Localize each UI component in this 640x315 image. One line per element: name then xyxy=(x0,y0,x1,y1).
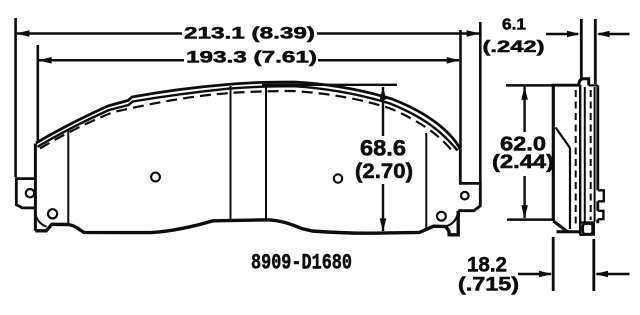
side view bottom flange outline xyxy=(580,223,594,235)
svg-text:(2.44): (2.44) xyxy=(492,152,554,173)
side view plate top hook xyxy=(579,79,589,86)
front view bottom edge (wavy profile) xyxy=(35,211,458,235)
dim 18.2 right arrowhead xyxy=(595,271,608,278)
dim 68.6 down arrowhead xyxy=(380,218,387,231)
side view inner face line xyxy=(569,148,571,229)
svg-text:(.715): (.715) xyxy=(458,274,519,296)
side view friction bottom edge xyxy=(557,230,580,233)
face hole near right end xyxy=(437,212,446,221)
dim 62.0 dimension line lower segment with down arrow xyxy=(523,176,525,218)
dim 62.0 dimension line upper segment with up arrow xyxy=(523,86,525,132)
front view right tab bottom + right edge xyxy=(458,149,480,211)
front view inner arc (double line) xyxy=(38,86,458,150)
side view face chamfer diagonal xyxy=(556,128,570,149)
side view left edge (friction face) xyxy=(552,85,555,221)
dim 6.1 right arrowhead xyxy=(596,31,609,38)
dim 62.0 bottom reference line xyxy=(507,218,552,221)
dim 68.6 top reference line xyxy=(262,84,397,86)
dim 6.1 right extension line (side view) xyxy=(594,19,597,84)
side view bottom-left chamfer xyxy=(553,221,567,232)
dim 68.6 dimension line upper segment with up arrow xyxy=(382,87,384,136)
dim 193.3 right arrowhead xyxy=(447,57,460,64)
dim 18.2 left extension line xyxy=(552,237,555,291)
side view plate back face line xyxy=(594,87,596,222)
dim 6.1 left arrowhead xyxy=(567,31,580,38)
interior slot line left xyxy=(230,86,232,220)
dim 62.0 down arrowhead xyxy=(521,205,528,218)
svg-text:213.1 (8.39): 213.1 (8.39) xyxy=(184,24,315,43)
dim 18.2 dimension line with arrows xyxy=(518,273,630,276)
left tab hole xyxy=(26,189,34,197)
side view plate right edge xyxy=(596,85,599,223)
side view right lug 2 xyxy=(598,211,604,219)
front view left edge xyxy=(34,144,37,231)
face hole right-middle xyxy=(334,174,342,182)
dim 213.1 left extension line xyxy=(14,18,17,177)
face hole left-middle xyxy=(151,173,160,182)
side view bottom lug rounded xyxy=(583,224,593,235)
front view dashed arc (friction material line) xyxy=(40,91,454,153)
face hole near left end xyxy=(48,209,57,218)
dim 193.3 left extension line xyxy=(36,45,39,143)
left interior fillet (plate corner) xyxy=(36,215,47,227)
side view hidden line dashed xyxy=(590,90,592,220)
svg-text:68.6: 68.6 xyxy=(360,136,406,161)
svg-text:(.242): (.242) xyxy=(483,37,545,56)
dim 193.3 right extension line xyxy=(459,30,462,148)
dim 6.1 left extension line (side view) xyxy=(580,19,583,79)
right interior fillet (plate corner) xyxy=(446,213,458,226)
interior vertical line near left end xyxy=(67,130,69,225)
dim 18.2 right extension line xyxy=(592,239,595,291)
side view shim line xyxy=(584,87,586,222)
side view top edge xyxy=(552,84,581,87)
dim 193.3 dimension line xyxy=(39,59,459,62)
dim 68.6 dimension line lower segment with down arrow xyxy=(382,184,384,231)
side view plate top short edge xyxy=(589,84,598,86)
dim 213.1 dimension line xyxy=(17,32,479,35)
dim 6.1 dimension line with arrows xyxy=(546,33,630,36)
svg-text:6.1: 6.1 xyxy=(502,17,526,34)
side view friction/plate interface dashed xyxy=(575,90,577,228)
dim 18.2 left arrowhead xyxy=(539,271,552,278)
dim 193.3 left arrowhead xyxy=(38,57,51,64)
dim 213.1 right extension line xyxy=(479,22,482,183)
left tab xyxy=(16,179,35,208)
dim 213.1 left arrowhead xyxy=(16,30,29,37)
dim 68.6 up arrowhead xyxy=(380,86,387,99)
front view outer arc (top edge of backing plate) xyxy=(36,82,460,150)
right tab hole xyxy=(461,192,469,200)
interior slot line right xyxy=(265,88,267,221)
side view right lug 1 xyxy=(598,190,604,201)
dim 213.1 right arrowhead xyxy=(467,30,480,37)
svg-text:8909-D1680: 8909-D1680 xyxy=(251,251,352,276)
dim 62.0 top reference line xyxy=(506,84,552,87)
interior vertical line near right end xyxy=(425,133,427,230)
svg-text:193.3 (7.61): 193.3 (7.61) xyxy=(186,48,317,67)
dim 62.0 up arrowhead xyxy=(521,87,528,100)
side view plate front face xyxy=(579,85,581,235)
svg-text:(2.70): (2.70) xyxy=(355,160,413,183)
